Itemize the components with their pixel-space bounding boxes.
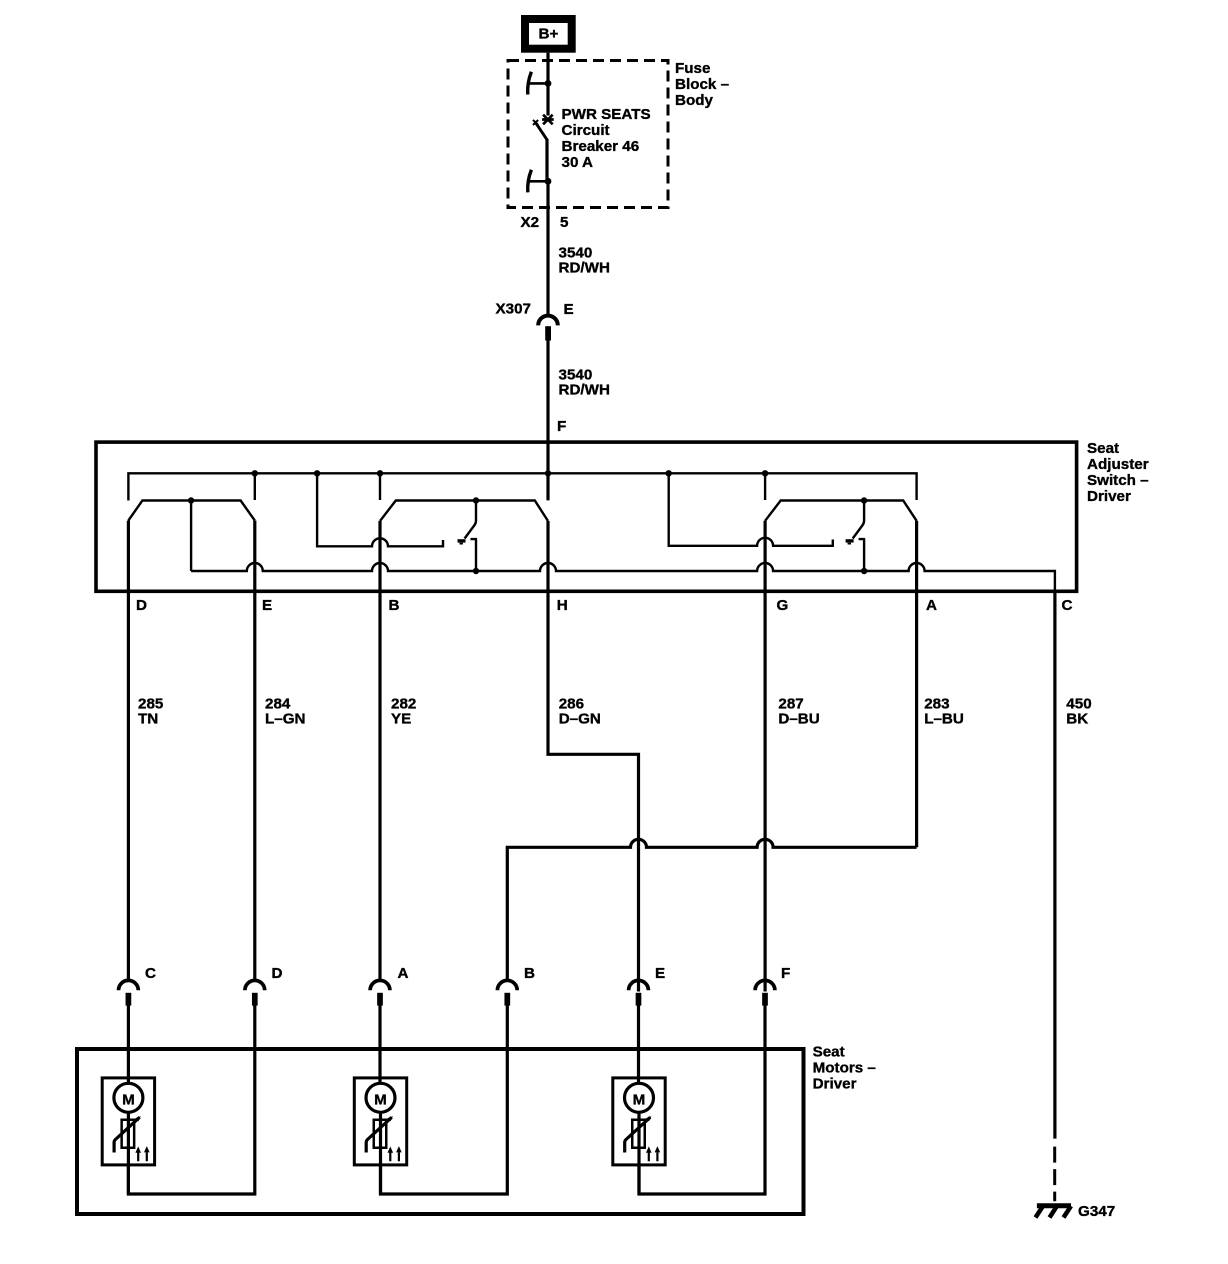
- connector E: [629, 980, 649, 1005]
- motor 3 return wire to connector F: [639, 1004, 765, 1194]
- bus stub to B contact: [379, 473, 381, 500]
- svg-text:C: C: [145, 965, 156, 982]
- svg-text:Driver: Driver: [1087, 488, 1131, 505]
- connector D: [245, 980, 265, 1005]
- wire connector C to motor 1: [127, 1004, 130, 1083]
- wire connector A to motor 2: [378, 1004, 381, 1083]
- middle fixed contact feed from bus: [317, 473, 443, 546]
- svg-text:E: E: [655, 965, 665, 982]
- svg-text:PWR SEATS: PWR SEATS: [562, 106, 651, 123]
- connector A: [370, 980, 390, 1005]
- wire pin B to connector A: [378, 521, 381, 980]
- bus stub to G contact: [764, 473, 766, 500]
- circuit breaker blade: [533, 120, 538, 125]
- svg-text:E: E: [564, 301, 574, 318]
- svg-text:G: G: [777, 597, 789, 614]
- svg-text:D: D: [272, 965, 283, 982]
- svg-text:A: A: [926, 597, 937, 614]
- svg-text:Seat: Seat: [1087, 440, 1119, 457]
- right switch contact slider (G-A): [765, 501, 917, 521]
- dashed ground wire: [1053, 1147, 1056, 1202]
- circuit breaker contact asterisk: [542, 115, 554, 125]
- right switch blade: [853, 501, 864, 539]
- svg-text:H: H: [557, 597, 568, 614]
- wire pin A crossover to connector B: [507, 521, 916, 980]
- wire pin C down to ground: [1053, 591, 1056, 1139]
- connector C: [118, 980, 138, 1005]
- svg-text:D–GN: D–GN: [559, 711, 601, 728]
- motor 2 return wire to connector B: [381, 1004, 508, 1194]
- svg-text:F: F: [781, 965, 790, 982]
- svg-text:Circuit: Circuit: [562, 122, 610, 139]
- svg-text:D–BU: D–BU: [778, 711, 819, 728]
- svg-text:B: B: [524, 965, 535, 982]
- right slider tap dot: [861, 497, 867, 503]
- wire blade to bottom hook: [545, 139, 548, 181]
- svg-text:Breaker 46: Breaker 46: [562, 138, 640, 155]
- breaker top terminal hook: [528, 72, 552, 95]
- svg-text:YE: YE: [391, 711, 411, 728]
- svg-text:Driver: Driver: [813, 1076, 857, 1093]
- B+ battery feed box: [525, 19, 572, 49]
- connector F: [755, 980, 775, 1005]
- bus stub to E contact: [254, 473, 256, 500]
- svg-text:Body: Body: [675, 92, 714, 109]
- ground symbol G347: [1037, 1203, 1071, 1208]
- left switch contact slider (D-E): [128, 501, 254, 521]
- svg-text:B+: B+: [539, 26, 559, 43]
- svg-text:Block –: Block –: [675, 76, 729, 93]
- svg-text:Fuse: Fuse: [675, 60, 710, 77]
- svg-text:Motors –: Motors –: [813, 1060, 876, 1077]
- connector X307: [538, 316, 558, 326]
- rail junction dots: [473, 568, 479, 574]
- wire pin G to connector F: [763, 521, 766, 992]
- svg-text:F: F: [557, 418, 566, 435]
- motor 1 (front height): [102, 1078, 154, 1194]
- wire fuse block to connector X307: [546, 181, 549, 316]
- wire X307 to switch box: [546, 340, 549, 500]
- svg-text:BK: BK: [1066, 711, 1088, 728]
- internal supply bus with end stubs: [128, 473, 916, 500]
- svg-text:B: B: [389, 597, 400, 614]
- svg-text:Adjuster: Adjuster: [1087, 456, 1149, 473]
- slider tap dot: [188, 497, 194, 503]
- svg-text:TN: TN: [138, 711, 158, 728]
- svg-text:RD/WH: RD/WH: [559, 260, 610, 277]
- motor 2 (rear height): [354, 1078, 406, 1194]
- svg-text:Seat: Seat: [813, 1044, 845, 1061]
- wire pin H jog to connector E: [548, 521, 639, 992]
- svg-text:X2: X2: [521, 214, 540, 231]
- middle switch blade: [465, 501, 476, 539]
- wire pin E to connector D: [253, 521, 256, 980]
- svg-text:G347: G347: [1078, 1203, 1115, 1220]
- right fixed contact feed from bus: [669, 473, 833, 546]
- bus junction dots: [252, 470, 258, 476]
- motor 3 (horizontal): [613, 1078, 665, 1194]
- wire B+ down into fuse block: [546, 53, 549, 116]
- svg-text:5: 5: [560, 214, 569, 231]
- motor 1 return wire to connector D: [128, 1004, 254, 1194]
- svg-text:A: A: [398, 965, 409, 982]
- svg-text:X307: X307: [496, 301, 531, 318]
- blade pivot: [859, 539, 866, 571]
- output rail to pin C with crossover hops: [191, 563, 1055, 591]
- svg-text:E: E: [262, 597, 272, 614]
- wire pin D to connector C: [127, 521, 130, 980]
- wire connector E to motor 3: [637, 1004, 640, 1083]
- connector B: [497, 980, 517, 1005]
- middle slider tap dot: [473, 497, 479, 503]
- svg-text:L–BU: L–BU: [924, 711, 964, 728]
- blade pivot: [471, 539, 478, 571]
- svg-text:D: D: [136, 597, 147, 614]
- svg-text:RD/WH: RD/WH: [559, 382, 610, 399]
- seat adjuster switch box: [96, 442, 1077, 591]
- middle switch contact slider (B-H): [380, 501, 548, 522]
- svg-text:C: C: [1062, 597, 1073, 614]
- svg-text:30 A: 30 A: [562, 154, 594, 171]
- breaker bottom terminal hook: [528, 170, 552, 193]
- svg-text:Switch –: Switch –: [1087, 472, 1149, 489]
- blade tip: [458, 539, 466, 542]
- blade tip: [846, 539, 854, 542]
- fuse block dashed box: [508, 61, 668, 208]
- seat motors box: [77, 1049, 804, 1214]
- svg-text:L–GN: L–GN: [265, 711, 306, 728]
- slider tap wire to output rail: [190, 501, 192, 572]
